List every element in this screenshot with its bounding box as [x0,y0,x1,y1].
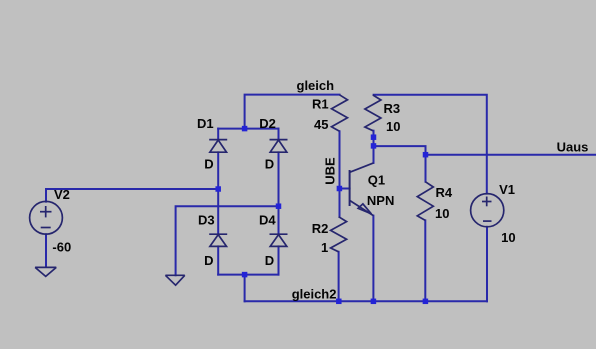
svg-text:gleich: gleich [297,78,335,93]
wire emitter to rail [372,216,374,302]
svg-text:R2: R2 [312,221,329,236]
wire net gleich top [245,95,340,129]
wire R3 top to V1 top [374,95,487,194]
svg-text:V2: V2 [54,187,70,202]
diode D1 [209,140,227,153]
wire right column middle (D2 to D4) [278,152,280,234]
wire right column lower (D4 to bottom) [278,246,280,274]
svg-text:D2: D2 [259,116,276,131]
resistor R3 [365,95,381,131]
svg-text:10: 10 [386,119,400,134]
wire R2 bottom to rail [338,252,340,301]
svg-text:R3: R3 [384,101,401,116]
node junction rail R4 [423,299,429,305]
svg-text:45: 45 [314,117,328,132]
svg-text:UBE: UBE [322,157,337,185]
svg-text:1: 1 [321,240,328,255]
voltage source V2 [30,201,63,234]
wire V2 bottom to ground [45,234,47,267]
wire left column upper (to D1) [217,129,219,139]
svg-text:10: 10 [501,230,515,245]
svg-text:Uaus: Uaus [557,139,589,154]
svg-text:Q1: Q1 [368,173,385,188]
svg-text:gleich2: gleich2 [292,287,337,302]
node junction bridge right [276,203,282,209]
node junction base [337,186,343,192]
wire left column lower (D3 to bottom) [217,246,219,274]
svg-text:D4: D4 [259,213,276,228]
svg-text:D: D [265,253,274,268]
svg-text:NPN: NPN [367,193,394,208]
wire V2 to bridge [46,189,218,202]
ground symbol (bridge) [165,275,184,285]
node junction gleich top [242,126,248,132]
node junction Uaus [423,152,429,158]
node junction bridge left [215,186,221,192]
transistor Q1 [350,163,374,216]
svg-text:D: D [204,253,213,268]
wire right column upper (to D2) [278,129,280,139]
node junction rail R2 [336,299,342,305]
wire bridge top horizontal [218,128,278,130]
diode D4 [270,234,288,246]
svg-text:D: D [265,157,274,172]
node junction rail emitter [371,299,377,305]
svg-text:-60: -60 [52,240,71,255]
wire bottom rail gleich2 [245,300,487,302]
wire V1 bottom to rail [486,227,488,301]
svg-text:D3: D3 [198,213,215,228]
resistor R2 [331,217,347,252]
svg-text:R1: R1 [312,97,329,112]
diode D3 [209,234,227,246]
wire left column middle (D1 to D3) [217,152,219,234]
svg-text:D1: D1 [197,116,214,131]
wire base stub [339,188,349,190]
diode D2 [270,140,288,153]
voltage source V1 [471,194,504,227]
node junction R3 bottom [371,134,377,140]
resistor R1 [332,95,348,132]
wire collector node horizontal [374,146,426,155]
svg-text:10: 10 [435,206,449,221]
wire bridge bottom horizontal [218,274,278,276]
wire R1 bottom to R2 top [339,131,341,216]
wire collector vertical [373,146,375,163]
svg-text:V1: V1 [499,182,515,197]
svg-text:R4: R4 [436,185,453,200]
wire bridge right node to ground [176,206,279,275]
wire R4 bottom to rail [424,220,426,301]
svg-text:D: D [204,157,213,172]
resistor R4 [417,182,433,221]
wire net Uaus [426,154,596,156]
wire R3 bottom stub [373,131,375,146]
node junction bridge bottom [242,272,248,278]
ground symbol (under V2) [35,267,56,276]
wire R4 top [425,155,427,182]
node junction collector [371,143,377,149]
wire bridge bottom to rail [244,275,246,302]
